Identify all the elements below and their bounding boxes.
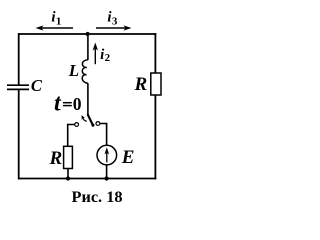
label R (right) — [134, 74, 148, 95]
switch contact left — [75, 123, 79, 127]
resistor R (bottom-left) — [64, 146, 73, 168]
node: top junction — [86, 32, 90, 36]
switch contact right — [96, 122, 100, 126]
svg-text:t: t — [54, 90, 62, 116]
caption — [72, 187, 123, 206]
switch motion arrow — [82, 115, 87, 121]
current arrow i1 — [36, 25, 74, 30]
capacitor C — [7, 85, 29, 89]
svg-text:R: R — [134, 74, 148, 95]
label t = 0 — [54, 90, 82, 116]
current arrow i2 — [93, 43, 98, 65]
svg-text:i2: i2 — [100, 47, 110, 64]
label i2 — [100, 47, 110, 64]
label C — [31, 76, 43, 95]
svg-text:C: C — [31, 76, 43, 95]
label L — [68, 61, 79, 80]
current arrow i3 — [96, 25, 132, 30]
svg-text:R: R — [49, 148, 63, 169]
label i3 — [107, 10, 117, 28]
label R (bottom-left) — [49, 148, 63, 169]
wire: outer loop right — [154, 33, 156, 179]
inductor L — [82, 60, 88, 84]
label i1 — [51, 10, 61, 28]
source E — [97, 145, 117, 165]
wire: left contact to resistor R (bottom-left) — [68, 125, 75, 147]
node: bottom-right junction — [105, 176, 109, 180]
switch blade — [88, 114, 95, 127]
svg-text:0: 0 — [73, 94, 82, 114]
wire: resistor to bottom — [67, 169, 69, 179]
svg-text:Рис. 18: Рис. 18 — [72, 187, 123, 206]
wire: middle branch upper — [87, 34, 89, 60]
wire: outer loop bottom — [18, 178, 156, 180]
svg-text:i3: i3 — [107, 10, 117, 28]
wire: outer loop top — [18, 33, 156, 35]
wire: right contact to source E — [100, 124, 107, 146]
wire: source to bottom — [106, 165, 108, 179]
resistor R (right) — [151, 73, 161, 95]
node: bottom-left junction — [66, 176, 70, 180]
svg-text:L: L — [68, 61, 79, 80]
svg-text:i1: i1 — [51, 10, 61, 28]
wire: middle branch lower — [87, 83, 89, 115]
label E — [121, 147, 135, 168]
svg-text:E: E — [121, 147, 135, 168]
wire: outer loop left — [18, 33, 20, 179]
